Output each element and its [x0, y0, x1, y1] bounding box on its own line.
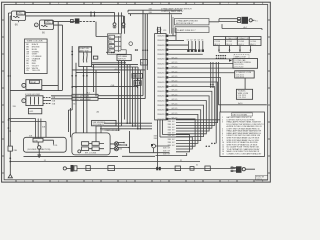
wires into RB2 top	[96, 126, 121, 142]
wire left bundle vertical	[8, 13, 10, 146]
chain connector CA	[71, 165, 74, 172]
svg-text:GY-1.5: GY-1.5	[172, 108, 178, 110]
chain box CD	[175, 166, 180, 171]
bottom rounded box RB2	[72, 133, 110, 155]
box R3	[236, 89, 252, 99]
small relay block M1	[132, 74, 142, 79]
wire dashed connector run	[80, 21, 96, 23]
wire lamp2 vertical drops	[58, 22, 62, 91]
connector strip body	[155, 34, 167, 120]
svg-text:GY-1.5: GY-1.5	[172, 67, 178, 69]
svg-text:54: 54	[198, 39, 200, 41]
junction dots left bottom	[8, 75, 12, 162]
wire cluster left stub	[106, 51, 108, 53]
wire top junction verticals	[91, 12, 94, 16]
junction dots cluster	[111, 49, 138, 53]
box R2	[235, 71, 255, 78]
wire lamp2 feeds	[54, 22, 75, 26]
svg-text:COL 3C/2: COL 3C/2	[236, 77, 244, 79]
wire A-10	[218, 104, 266, 106]
box R1	[233, 59, 258, 69]
svg-text:GY-1.5: GY-1.5	[172, 104, 178, 106]
svg-text:31B-RD: 31B-RD	[157, 105, 165, 107]
svg-text:COL 2C/20: COL 2C/20	[234, 66, 243, 68]
svg-text:A2: A2	[141, 61, 143, 64]
wire bottom-left ground run	[9, 151, 11, 174]
wire below strip	[158, 120, 163, 168]
svg-text:31B GY: 31B GY	[168, 127, 176, 129]
ign feed label box	[92, 120, 116, 125]
headlamp label box upper	[175, 19, 210, 25]
svg-text:GY-1.5: GY-1.5	[172, 57, 178, 59]
svg-text:66: 66	[15, 23, 18, 27]
wire mid horizontal band	[72, 63, 145, 73]
junction dots staircase crossing	[206, 143, 216, 147]
svg-text:31: 31	[109, 51, 111, 53]
connector strip pin nubs	[166, 35, 169, 120]
comb labels	[187, 39, 203, 41]
svg-text:C3 203: C3 203	[238, 41, 244, 43]
svg-text:53: 53	[194, 39, 196, 41]
svg-text:C1 201: C1 201	[215, 41, 221, 43]
terminal symbol G1	[113, 23, 117, 28]
svg-text:31B-RD: 31B-RD	[157, 36, 165, 38]
notes box KEY	[220, 112, 265, 157]
wire label-box runs	[51, 96, 145, 99]
svg-text:31B-RD: 31B-RD	[157, 86, 165, 88]
svg-text:ASSY 31B: ASSY 31B	[80, 49, 90, 52]
svg-text:31B GY: 31B GY	[163, 150, 171, 152]
svg-text:31B-RD: 31B-RD	[157, 119, 165, 121]
wire R2 to R3	[244, 78, 246, 89]
svg-text:BN-1.5: BN-1.5	[250, 44, 255, 46]
svg-text:MAIN LOOM: MAIN LOOM	[235, 55, 246, 58]
svg-text:31B GY: 31B GY	[168, 142, 176, 144]
chain small CE	[190, 167, 194, 171]
svg-text:SWITCH: SWITCH	[118, 59, 126, 61]
svg-text:31B-RD: 31B-RD	[157, 49, 165, 51]
svg-text:GY-1.5: GY-1.5	[172, 99, 178, 101]
wire strip top entries	[158, 27, 161, 34]
svg-text:51: 51	[187, 39, 189, 41]
svg-text:C2 202: C2 202	[226, 41, 232, 43]
svg-text:GY-1.5: GY-1.5	[172, 71, 178, 73]
headlamp unit RH	[34, 20, 53, 30]
wire left bundle x72	[69, 46, 77, 137]
svg-text:GY-1.5: GY-1.5	[172, 62, 178, 64]
svg-text:56a: 56a	[109, 41, 112, 43]
circle below RB1 and ground	[37, 146, 41, 158]
svg-text:31B-RD: 31B-RD	[157, 96, 165, 98]
wire switch drops	[84, 67, 87, 133]
wire mid horizontal y90.6	[10, 90, 62, 92]
svg-text:31B-RD: 31B-RD	[157, 63, 165, 65]
chain box CC	[108, 166, 115, 171]
junction dots strip-left	[142, 49, 148, 51]
svg-text:31B GY: 31B GY	[168, 118, 176, 120]
svg-text:GY-1.5: GY-1.5	[172, 85, 178, 87]
wire mid connectors to small relays	[136, 67, 139, 88]
svg-text:CONNECTOR LOOM EARTH BRACKET: CONNECTOR LOOM EARTH BRACKET	[227, 153, 263, 156]
junction dots turn rows	[126, 122, 141, 129]
wire right-of-strip verticals	[211, 62, 219, 143]
wire code labels right of strip	[172, 57, 178, 119]
connector block X1	[75, 18, 80, 23]
svg-text:55: 55	[201, 39, 203, 41]
terminal symbol G2	[122, 23, 126, 28]
chain box CF	[205, 166, 210, 171]
fuse box F1	[22, 96, 51, 106]
left connector block	[8, 146, 12, 151]
svg-text:31B GY: 31B GY	[168, 132, 176, 134]
svg-text:15: 15	[222, 154, 224, 156]
svg-text:3: 3	[222, 122, 223, 124]
svg-text:31: 31	[196, 165, 198, 167]
lighting switch S1	[79, 47, 98, 67]
wire drops to label boxes	[94, 65, 96, 97]
svg-text:31: 31	[44, 160, 46, 162]
fuse wire labels	[52, 97, 56, 105]
svg-text:GY-1.5: GY-1.5	[172, 90, 178, 92]
cluster label box	[117, 55, 131, 61]
svg-text:A,6: A,6	[87, 91, 90, 94]
svg-text:0261/3: 0261/3	[256, 179, 262, 181]
junction dots turn tails	[123, 142, 130, 149]
svg-text:GY-1.5: GY-1.5	[238, 44, 243, 46]
svg-text:31B-RD: 31B-RD	[157, 91, 165, 93]
svg-text:2 RD: 2 RD	[53, 145, 58, 147]
junction dots top wires	[90, 12, 95, 17]
column switch cluster S2	[108, 34, 133, 54]
svg-text:56b: 56b	[109, 46, 112, 48]
svg-text:31B-RD: 31B-RD	[157, 110, 165, 112]
svg-text:31B-RD: 31B-RD	[157, 68, 165, 70]
small box below fuse box	[28, 108, 41, 113]
verticals feeding boxes	[170, 12, 174, 34]
svg-text:10 AMP FUSE NO 7: 10 AMP FUSE NO 7	[177, 29, 196, 32]
svg-text:31B-RD: 31B-RD	[157, 114, 165, 116]
border frame inner	[4, 5, 268, 180]
wire turn area horizontals	[100, 123, 152, 129]
svg-text:C11: C11	[163, 30, 166, 32]
relay K2	[242, 17, 249, 24]
chain junction pair	[156, 167, 161, 170]
corner part number	[256, 175, 268, 180]
svg-text:31B-RD: 31B-RD	[157, 45, 165, 47]
svg-text:56: 56	[109, 37, 111, 39]
junction cluster circle	[151, 144, 170, 153]
svg-text:31B GY: 31B GY	[168, 124, 176, 126]
svg-text:RELAY: RELAY	[30, 81, 37, 84]
arrowhead into R1	[229, 59, 232, 62]
wire lamp1 vertical drops	[115, 12, 124, 22]
svg-text:31B GY: 31B GY	[163, 148, 171, 150]
bulbs right of RB2	[110, 142, 118, 151]
svg-text:31B-RD: 31B-RD	[157, 100, 165, 102]
wire lamp1 feeds	[26, 12, 124, 16]
wire mid horizontal y86.6	[72, 86, 137, 88]
table drop wires	[219, 46, 251, 53]
svg-text:31B-RD: 31B-RD	[157, 54, 165, 56]
junction dots right-of-strip	[210, 84, 214, 88]
border frame outer	[2, 2, 271, 182]
end component bottom right	[236, 166, 242, 173]
wire turn tails down-right	[118, 131, 170, 156]
svg-text:31B GY: 31B GY	[168, 130, 176, 132]
bottom chain wire	[77, 167, 243, 169]
wire center bundle verticals	[119, 61, 141, 131]
connector symbol above strip	[157, 28, 161, 32]
wire label box row1	[72, 94, 98, 97]
svg-text:RPL LOOMS: RPL LOOMS	[85, 152, 97, 154]
strip output wires	[156, 28, 235, 156]
wire lamp1 to left bundle	[8, 13, 11, 16]
svg-text:5 RH TURN LAMP: 5 RH TURN LAMP	[105, 129, 121, 132]
svg-text:CONTROL FEED 31B GY: CONTROL FEED 31B GY	[161, 11, 184, 13]
wires into RB1	[8, 119, 46, 139]
svg-text:56b: 56b	[119, 149, 122, 151]
wire K2 lower out	[222, 24, 262, 30]
svg-text:A 4.0: A 4.0	[115, 68, 119, 71]
svg-text:31B-RD: 31B-RD	[157, 59, 165, 61]
svg-text:2 RD: 2 RD	[34, 140, 39, 142]
svg-text:C4 204: C4 204	[250, 41, 256, 43]
wire upper-middle bundle	[119, 12, 125, 33]
wire strip top feeds	[128, 10, 182, 16]
ground bottom left	[8, 174, 12, 178]
svg-text:YELLOW: YELLOW	[32, 70, 40, 72]
comb connector pins	[188, 41, 202, 49]
relay K1	[22, 80, 58, 90]
small relay block M2	[134, 81, 141, 86]
junction dot cluster	[216, 55, 226, 59]
svg-text:TO CAB LOOM CONNECTOR: TO CAB LOOM CONNECTOR	[225, 37, 250, 40]
legend box WIRE COLOUR	[25, 39, 48, 74]
svg-text:31B-RD: 31B-RD	[157, 77, 165, 79]
staircase wire labels left column	[163, 118, 175, 155]
headlamp unit LH	[12, 11, 26, 21]
svg-text:1.5 GY: 1.5 GY	[17, 14, 24, 16]
table drop arrowheads	[218, 49, 252, 51]
small blob left of strip	[141, 60, 148, 66]
svg-text:GY-1.5: GY-1.5	[172, 113, 178, 115]
svg-text:GY-1.5: GY-1.5	[172, 81, 178, 83]
svg-text:31B GY: 31B GY	[168, 135, 176, 137]
svg-text:31B GY: 31B GY	[168, 139, 176, 141]
wire fuse to relay K2	[209, 19, 238, 22]
connector strip row text	[157, 36, 165, 121]
svg-text:A-10: A-10	[238, 102, 242, 105]
svg-text:31B GY MAIN BEAM: 31B GY MAIN BEAM	[73, 98, 91, 101]
wire bottom horizontal 2	[24, 156, 119, 158]
svg-text:9.5: 9.5	[255, 20, 258, 22]
wire long bottom horizontal	[10, 161, 200, 163]
svg-text:31: 31	[180, 160, 182, 162]
svg-text:31B-RD: 31B-RD	[157, 73, 165, 75]
svg-text:COL 2C/4: COL 2C/4	[238, 97, 246, 99]
chain start circle	[63, 167, 70, 170]
svg-text:GY-1.5: GY-1.5	[172, 94, 178, 96]
svg-text:52: 52	[190, 39, 192, 41]
svg-text:31B GY: 31B GY	[168, 121, 176, 123]
svg-text:1.5 GY: 1.5 GY	[45, 23, 52, 25]
wire strip-left verticals	[143, 10, 147, 98]
svg-text:31B GY: 31B GY	[163, 154, 171, 156]
dashed label box	[234, 54, 249, 58]
svg-text:GY-1.5: GY-1.5	[172, 76, 178, 78]
bottom rounded box RB1	[24, 137, 67, 152]
svg-text:MOTOR RH 31B GY: MOTOR RH 31B GY	[176, 23, 194, 25]
svg-text:31B-RD: 31B-RD	[157, 40, 165, 42]
chain box CB	[86, 166, 90, 171]
svg-text:4-31: 4-31	[29, 111, 33, 113]
fuse label box	[175, 27, 209, 33]
border reference numbers	[24, 3, 264, 183]
svg-text:31B-RD: 31B-RD	[157, 82, 165, 84]
border tick marks	[2, 2, 271, 182]
wire label box row2	[72, 97, 98, 100]
junction dots under switch	[71, 51, 87, 88]
table top right	[214, 37, 262, 46]
